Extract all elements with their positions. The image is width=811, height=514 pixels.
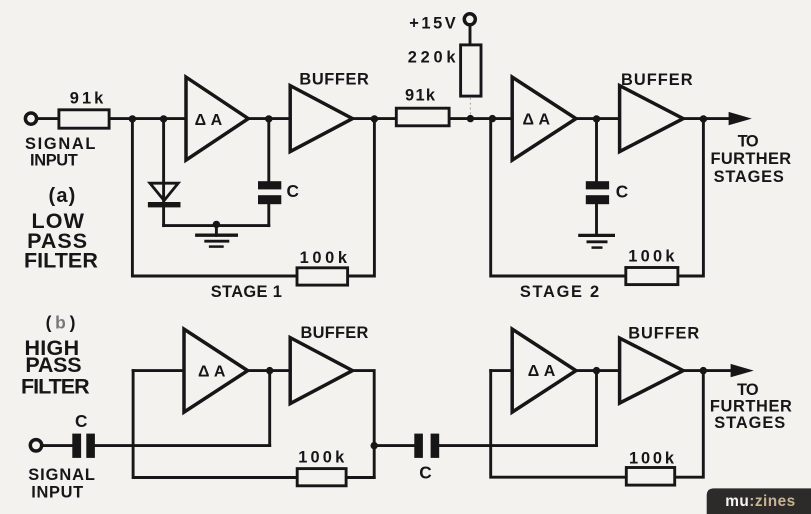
- svg-text:INPUT: INPUT: [30, 152, 78, 170]
- svg-text:FURTHER: FURTHER: [710, 397, 792, 415]
- wire Bb2 to output: [683, 369, 731, 372]
- buffer B2: [620, 86, 684, 152]
- input terminal (a): [25, 113, 36, 124]
- resistor 100k stage1: [297, 268, 348, 285]
- svg-text:FILTER: FILTER: [21, 374, 90, 398]
- svg-text:TO: TO: [738, 133, 759, 151]
- ground symbol stage1: [195, 234, 238, 237]
- svg-text:BUFFER: BUFFER: [628, 324, 699, 342]
- wire to ΔAb2 input: [491, 369, 513, 372]
- node dot ΔA1 output: [265, 115, 272, 122]
- svg-text:PASS: PASS: [25, 353, 81, 377]
- resistor 100k stage2: [626, 268, 678, 285]
- wire ΔAb1 to buffer: [248, 369, 291, 372]
- wire to ΔAb1 input: [133, 369, 184, 372]
- svg-text:TO: TO: [737, 381, 759, 399]
- svg-text:+15V: +15V: [409, 15, 455, 33]
- svg-text:FILTER: FILTER: [24, 248, 98, 272]
- capacitor C1 top wire: [267, 119, 270, 182]
- node dot ΔAb2 output: [593, 367, 600, 374]
- op-amp ΔA1: [186, 77, 248, 160]
- feedback wire stage1 right: [349, 119, 374, 276]
- svg-text:(a): (a): [49, 185, 76, 207]
- feedback left vertical (b2): [491, 371, 625, 478]
- svg-text:C: C: [286, 181, 298, 201]
- capacitor C2: [586, 181, 609, 189]
- svg-text:91k: 91k: [70, 89, 104, 107]
- svg-text:C: C: [419, 463, 431, 483]
- svg-text:mu:zines: mu:zines: [725, 493, 795, 510]
- node dot: [160, 115, 167, 122]
- buffer Bb1: [290, 338, 352, 404]
- feedback left vertical (b1): [133, 371, 296, 478]
- node dot B1 output: [371, 115, 378, 122]
- wire diode to bottom node: [162, 207, 165, 225]
- interstage wire to C: [374, 444, 414, 447]
- capacitor C interstage: [414, 434, 423, 458]
- wire R2 to ΔA2: [451, 117, 513, 120]
- svg-text:STAGES: STAGES: [714, 168, 784, 186]
- op-amp ΔA b1: [184, 329, 248, 412]
- capacitor C input (b): [72, 434, 81, 458]
- wire C to ΔA output node riser: [95, 444, 270, 447]
- svg-text:SIGNAL: SIGNAL: [28, 466, 95, 484]
- riser to ΔAb2 output: [595, 371, 598, 446]
- svg-text:FURTHER: FURTHER: [710, 150, 791, 168]
- wire 220k to +15V terminal: [469, 26, 472, 43]
- ground symbol stage2: [578, 234, 615, 237]
- bottom node wire stage1: [164, 224, 269, 227]
- svg-text:STAGE 2: STAGE 2: [520, 283, 599, 301]
- svg-text:(b): (b): [46, 313, 76, 333]
- svg-text:BUFFER: BUFFER: [299, 70, 369, 88]
- resistor 100k (b2): [626, 468, 674, 486]
- svg-text:Δ A: Δ A: [195, 112, 223, 129]
- output arrow (a): [729, 112, 752, 125]
- faint wire 220k to node: [469, 98, 471, 116]
- wire ΔA1 to buffer B1: [248, 117, 290, 120]
- +15V terminal: [464, 14, 475, 25]
- node dot B2 output: [700, 115, 707, 122]
- buffer Bb2: [620, 338, 684, 403]
- node dot: [129, 115, 136, 122]
- svg-text:BUFFER: BUFFER: [621, 71, 693, 89]
- op-amp ΔA2: [512, 77, 576, 160]
- node dot ΔA2 output: [593, 115, 600, 122]
- output arrow (b): [731, 364, 754, 377]
- input terminal (b): [30, 440, 41, 451]
- riser to ΔAb1 output: [268, 371, 271, 446]
- buffer B1: [290, 86, 352, 152]
- svg-text:BUFFER: BUFFER: [300, 324, 368, 342]
- svg-text:STAGE 1: STAGE 1: [211, 283, 282, 301]
- wire B2 to output: [683, 117, 729, 120]
- diode branch wire: [162, 119, 165, 202]
- feedback wire stage2 left: [491, 119, 625, 276]
- feedback wire (b2) right: [677, 371, 704, 478]
- op-amp ΔA b2: [512, 329, 576, 412]
- node dot Bb2 output: [700, 367, 707, 374]
- feedback wire (b1) right: [348, 476, 375, 479]
- ground node dot stage1: [213, 221, 220, 228]
- svg-text:Δ A: Δ A: [528, 363, 556, 380]
- capacitor C1: [258, 181, 281, 189]
- diode D1: [150, 183, 178, 200]
- wire ΔAb2 to buffer: [576, 369, 620, 372]
- wire input to R1: [38, 117, 58, 120]
- wire R1 to ΔA1: [111, 117, 187, 120]
- svg-text:100k: 100k: [629, 450, 675, 468]
- muzines logo: [707, 488, 811, 514]
- capacitor C2 top wire: [595, 119, 598, 182]
- svg-text:STAGES: STAGES: [714, 414, 785, 432]
- wire B1 to R2: [353, 117, 395, 120]
- svg-text:Δ A: Δ A: [523, 111, 551, 128]
- wire input to C: [43, 444, 72, 447]
- svg-text:SIGNAL: SIGNAL: [25, 135, 95, 153]
- svg-text:INPUT: INPUT: [31, 484, 83, 502]
- resistor 220k: [461, 45, 481, 96]
- resistor R1 91k: [59, 110, 109, 128]
- ground stem stage1: [215, 226, 218, 236]
- feedback wire stage1 left vertical: [132, 119, 295, 276]
- node dot: [489, 115, 496, 122]
- node dot ΔAb1 output: [266, 367, 273, 374]
- feedback wire stage2 right: [679, 119, 703, 276]
- wire Bb1 output down: [353, 371, 375, 478]
- wire C to stage2 riser: [439, 444, 596, 447]
- svg-text:C: C: [75, 411, 87, 431]
- wire ΔA2 to buffer B2: [576, 117, 620, 120]
- node dot: [467, 115, 474, 122]
- resistor R2 91k: [396, 108, 449, 126]
- svg-text:91k: 91k: [405, 86, 436, 104]
- capacitor C1 bottom wire: [267, 204, 270, 225]
- resistor 100k (b1): [297, 469, 346, 486]
- node dot interstage: [371, 442, 378, 449]
- svg-text:C: C: [616, 181, 628, 201]
- capacitor C2 bottom wire: [595, 204, 598, 235]
- svg-text:Δ A: Δ A: [198, 363, 226, 380]
